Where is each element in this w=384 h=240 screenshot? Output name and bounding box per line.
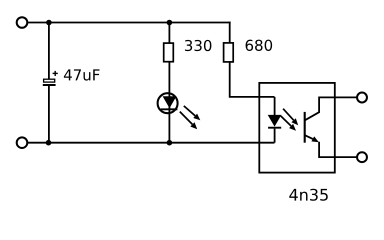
optocoupler 4n35 box xyxy=(259,83,335,173)
wire capacitor bottom lead xyxy=(48,86,50,143)
label 330 xyxy=(185,40,211,51)
optocoupler LED triangle xyxy=(268,115,280,126)
phototransistor collector xyxy=(305,97,357,120)
junction bottom rail / capacitor xyxy=(46,140,52,146)
optocoupler LED cathode lead xyxy=(274,129,276,143)
terminal bottom-right xyxy=(357,152,367,162)
capacitor 47uF plates xyxy=(43,79,56,85)
optocoupler light arrow 2 xyxy=(281,116,296,131)
terminal bottom-left xyxy=(17,137,28,148)
junction top rail / resistor 330 xyxy=(167,20,173,26)
resistor 680 xyxy=(224,43,234,62)
LED triangle xyxy=(163,97,175,108)
wire top rail corner to resistor 680 xyxy=(229,22,231,43)
label 47uF xyxy=(64,69,100,80)
wire bottom rail xyxy=(27,142,274,144)
junction bottom rail / LED xyxy=(167,140,173,146)
label 4n35 xyxy=(289,189,328,201)
junction top rail / capacitor xyxy=(46,20,52,26)
label 680 xyxy=(246,40,273,51)
wire resistor 330 top lead xyxy=(168,23,170,44)
LED light arrow 2 xyxy=(180,112,197,130)
LED circle xyxy=(158,93,178,113)
terminal top-right xyxy=(357,93,367,103)
wire top rail xyxy=(27,22,230,24)
wire capacitor top lead xyxy=(48,23,50,80)
terminal top-left xyxy=(17,17,28,28)
optocoupler LED anode lead xyxy=(274,97,276,115)
LED cathode bar xyxy=(161,108,178,110)
phototransistor base bar xyxy=(304,112,306,143)
optocoupler light arrow 1 xyxy=(283,109,298,126)
wire resistor 330 to LED to bottom rail xyxy=(168,62,170,143)
wire resistor 680 to optocoupler anode xyxy=(230,62,275,97)
optocoupler LED cathode bar xyxy=(268,127,281,129)
phototransistor emitter with arrow xyxy=(305,135,357,157)
LED light arrow 1 xyxy=(184,106,201,120)
resistor 330 xyxy=(164,43,174,62)
capacitor plus sign xyxy=(53,71,58,76)
